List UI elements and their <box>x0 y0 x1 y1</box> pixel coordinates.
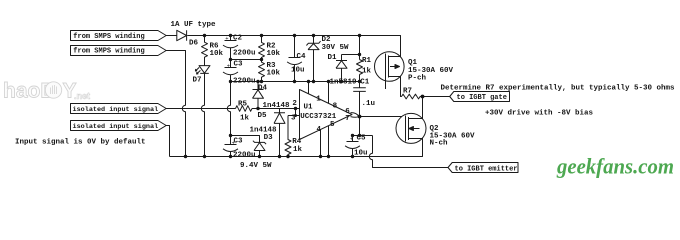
svg-text:1k: 1k <box>293 146 303 154</box>
wire C5 top link <box>353 135 373 137</box>
wire bottom VEE rail to Q2 source <box>170 139 423 157</box>
svg-text:30V 5W: 30V 5W <box>322 44 350 52</box>
tag from SMPS winding 1 <box>71 31 167 41</box>
svg-text:9.4V 5W: 9.4V 5W <box>240 162 272 170</box>
transistor Q2 gate bar <box>405 116 407 142</box>
svg-text:D7: D7 <box>193 77 202 85</box>
junction U1 pin1 on 0V rail <box>307 80 310 83</box>
svg-text:R4: R4 <box>292 138 302 146</box>
svg-text:1n5819: 1n5819 <box>330 79 358 87</box>
svg-text:1A UF type: 1A UF type <box>171 21 217 29</box>
svg-text:from SMPS winding: from SMPS winding <box>73 33 144 41</box>
junction R1 top on +30V rail <box>358 34 361 37</box>
capacitor C2 <box>223 36 238 60</box>
junction tag2 column on VEE rail <box>184 155 187 158</box>
diode D4 1n4148 clamp <box>253 82 264 109</box>
junction pin2-pin3 tie on pin2 line <box>294 107 297 110</box>
junction R2-R3 midpoint <box>260 58 263 61</box>
svg-text:10k: 10k <box>267 50 281 58</box>
wire emitter drop with hop over VEE rail <box>369 136 448 168</box>
wire Q1 drain to R7 <box>401 77 402 97</box>
wire pin2-pin3 tie <box>295 109 297 116</box>
junction U1 pin5 on VEE rail <box>327 155 330 158</box>
svg-text:isolated input signal: isolated input signal <box>73 123 159 131</box>
junction D2 bottom on 0V rail <box>312 80 315 83</box>
svg-text:1: 1 <box>316 95 321 103</box>
junction U1 pin8 on 0V rail <box>327 80 330 83</box>
svg-text:C2: C2 <box>233 34 243 42</box>
svg-text:C4: C4 <box>297 53 307 61</box>
junction C1 top on 0V rail <box>358 80 361 83</box>
diode D6 1A UF type <box>177 30 187 40</box>
svg-text:geekfans.com: geekfans.com <box>556 153 674 178</box>
svg-text:10k: 10k <box>210 50 224 58</box>
LED D7 arrows <box>195 67 200 74</box>
diode D5 1n4148 <box>274 109 285 157</box>
svg-text:1k: 1k <box>240 115 250 123</box>
svg-text:2: 2 <box>292 100 297 108</box>
resistor R7 <box>402 94 423 99</box>
junction R2 top on +30V rail <box>260 34 263 37</box>
wire D1 branch <box>342 54 360 56</box>
svg-text:4: 4 <box>317 126 322 134</box>
svg-text:1n4148: 1n4148 <box>263 102 291 110</box>
svg-text:D5: D5 <box>258 112 268 120</box>
transistor Q1 channel and leads <box>389 56 401 78</box>
svg-text:P-ch: P-ch <box>408 74 427 82</box>
tag to IGBT emitter <box>448 163 518 173</box>
svg-text:1k: 1k <box>362 68 372 76</box>
svg-text:C3: C3 <box>234 137 244 145</box>
svg-text:.net: .net <box>74 91 90 101</box>
svg-text:10u: 10u <box>354 149 368 157</box>
wire top rail +30V <box>187 36 400 57</box>
junction C5 top link <box>351 134 354 137</box>
svg-text:R7: R7 <box>403 87 412 95</box>
svg-text:R1: R1 <box>362 57 372 65</box>
svg-text:+30V drive with -8V bias: +30V drive with -8V bias <box>485 110 594 118</box>
svg-text:+: + <box>232 139 235 146</box>
junction D2 top on +30V rail <box>312 34 315 37</box>
tag texts <box>73 33 518 173</box>
junction output column on C5 link <box>358 134 361 137</box>
junction D1 bottom on 0V rail <box>340 80 343 83</box>
junction C4 top on +30V rail <box>293 34 296 37</box>
LED D7 <box>199 58 210 74</box>
zener diode D2 30V 5W <box>306 36 320 82</box>
resistor R5 <box>236 106 253 112</box>
svg-text:C3: C3 <box>234 60 244 68</box>
transistor Q2 N-ch circle <box>396 113 426 143</box>
transistor Q2 arrow N-ch <box>409 127 414 131</box>
junction C2 top on +30V rail <box>229 34 232 37</box>
svg-text:3: 3 <box>291 115 296 123</box>
wire pin2 input line left part <box>166 108 236 110</box>
svg-text:from SMPS winding: from SMPS winding <box>73 48 144 56</box>
svg-text:to IGBT emitter: to IGBT emitter <box>455 165 518 173</box>
svg-text:2200u: 2200u <box>233 151 256 159</box>
wire C2-C3 / R2-R3 midpoint link <box>231 59 262 61</box>
svg-text:U1: U1 <box>304 104 314 112</box>
wire driver output to Q2 gate <box>360 116 406 118</box>
junction D4 top on 0V rail <box>256 80 259 83</box>
capacitor C1 .1u <box>353 88 366 92</box>
diode D1 1n5819 <box>336 55 347 82</box>
wire R1/C1 column <box>359 36 361 136</box>
wire D7 down-column with crossover hops <box>201 73 204 156</box>
resistor R1 <box>357 60 363 75</box>
junction D3 on VEE rail <box>258 155 261 158</box>
capacitor C4 <box>287 36 302 82</box>
svg-text:.1u: .1u <box>362 100 376 108</box>
transistor Q1 arrow P-ch <box>395 65 400 69</box>
wire mid 0V rail <box>231 81 360 83</box>
svg-text:2200u: 2200u <box>233 78 256 86</box>
svg-text:D4: D4 <box>258 85 268 93</box>
svg-text:D1: D1 <box>328 54 338 62</box>
svg-text:8: 8 <box>333 103 338 111</box>
svg-text:10k: 10k <box>267 70 281 78</box>
resistor R3 <box>259 60 265 82</box>
junction C3 lower on VEE rail <box>229 155 232 158</box>
svg-text:Determine R7 experimentally, b: Determine R7 experimentally, but typical… <box>441 85 676 93</box>
resistor R6 <box>202 36 208 58</box>
junction R3-D4 on 0V rail <box>260 80 263 83</box>
svg-text:5: 5 <box>330 121 335 129</box>
wire R7 node to gate tag <box>423 96 450 98</box>
watermark haoDIY.net <box>3 80 90 103</box>
svg-text:UCC37321: UCC37321 <box>300 113 337 121</box>
junction D5 anode on VEE rail <box>278 155 281 158</box>
svg-text:R5: R5 <box>238 100 248 108</box>
svg-text:D2: D2 <box>322 36 332 44</box>
svg-text:D3: D3 <box>264 134 274 142</box>
svg-text:C1: C1 <box>360 79 370 87</box>
resistor R2 <box>259 36 265 60</box>
U1 pin 8 stub <box>328 82 330 104</box>
svg-text:2200u: 2200u <box>233 50 256 58</box>
wire pin3 line with R4 and tie <box>288 115 300 117</box>
svg-text:10u: 10u <box>291 66 305 74</box>
wire tag2 down-column with crossover hops <box>166 51 186 157</box>
svg-text:to IGBT gate: to IGBT gate <box>457 94 507 102</box>
wire tag4 return drop to VEE rail <box>166 126 170 157</box>
wire pin2 input line right part <box>252 108 300 110</box>
U1 pin 4 stub <box>320 129 322 156</box>
transistor Q2 channel and leads <box>409 117 423 140</box>
junction C3 lower top node <box>229 134 232 137</box>
polarity plus marks <box>225 35 353 146</box>
svg-text:+: + <box>225 35 228 42</box>
junction C3 bottom on 0V rail <box>229 80 232 83</box>
transistor Q1 P-ch circle <box>375 52 405 82</box>
wire from tag1 to D6 anode <box>166 35 177 37</box>
junction C5 bottom on VEE rail <box>351 155 354 158</box>
junction C2-C3 midpoint <box>229 58 232 61</box>
wire negative clamp line C3b to D3 <box>231 136 260 143</box>
svg-text:D6: D6 <box>189 40 199 48</box>
U1 pin 1 stub <box>308 82 310 94</box>
tag isolated input signal 1 <box>71 104 167 114</box>
svg-text:+: + <box>350 136 353 143</box>
capacitor C3 lower (negative rail) <box>223 136 238 157</box>
capacitor C3 upper <box>223 60 238 82</box>
junction tie on pin3 line <box>294 114 297 117</box>
tag from SMPS winding 2 <box>71 46 167 56</box>
resistor R4 <box>285 116 291 157</box>
node IGBT gate drive R7-Q1-Q2 <box>421 95 425 99</box>
wire C2C3 column down with crossover hops <box>227 82 230 136</box>
junction D7 column on VEE rail <box>203 155 206 158</box>
node OUT driver output <box>358 115 362 119</box>
tag isolated input signal 2 <box>71 121 167 131</box>
svg-text:+: + <box>227 62 230 69</box>
junction R6 top on +30V rail <box>203 34 206 37</box>
op-amp style driver U1 UCC37321 body <box>300 90 353 140</box>
svg-text:isolated input signal: isolated input signal <box>73 106 159 114</box>
zener diode D3 9.4V 5W <box>253 141 266 157</box>
junction D4 on pin2 line <box>256 107 259 110</box>
tag to IGBT gate <box>450 92 510 102</box>
U1 pins 6 7 output stubs <box>351 113 359 118</box>
junction R4 bottom on VEE rail <box>286 155 289 158</box>
capacitor C5 body <box>345 136 360 157</box>
U1 pin 5 stub <box>328 126 330 157</box>
junction C4 bottom on 0V rail <box>293 80 296 83</box>
wire Q2 drain up to R7 node <box>409 97 423 119</box>
svg-text:7: 7 <box>345 115 350 123</box>
svg-text:Q1: Q1 <box>408 59 418 67</box>
svg-text:Input signal is 0V by default: Input signal is 0V by default <box>15 139 146 147</box>
svg-text:N-ch: N-ch <box>430 140 449 148</box>
junction dots group <box>184 34 425 158</box>
junction D1 branch on R1 column <box>358 53 361 56</box>
transistor Q1 gate bar <box>385 54 387 90</box>
junction U1 pin4 on VEE rail <box>319 155 322 158</box>
